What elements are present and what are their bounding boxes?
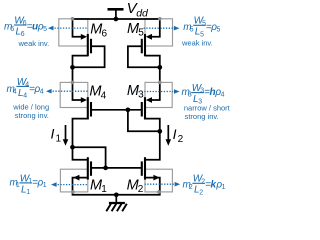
- wire cross-coupling gates M4,M3 to node Y: [128, 110, 159, 132]
- highlight box M3: [145, 82, 172, 107]
- svg-text:5: 5: [217, 26, 221, 33]
- transistor M2 source wire to ground rail: [116, 178, 160, 195]
- pointer line to label m3: [133, 91, 173, 93]
- transistor M5 channel bar: [144, 34, 146, 56]
- transistor M5 source arrow: [146, 34, 152, 40]
- transistor M3 channel bar: [144, 97, 146, 119]
- pin marker M1 box: [71, 190, 75, 194]
- svg-text:5: 5: [200, 31, 204, 38]
- svg-text:1: 1: [56, 133, 62, 144]
- svg-text:1: 1: [222, 184, 226, 191]
- svg-text:6: 6: [21, 31, 25, 38]
- svg-text:4: 4: [101, 90, 107, 101]
- pin marker M5 box: [158, 17, 162, 21]
- svg-text:4: 4: [13, 89, 17, 96]
- transistor M2 channel bar: [144, 157, 146, 179]
- transistor M6 channel bar: [87, 34, 89, 56]
- transistor M3 gate bar: [141, 102, 143, 117]
- pointer line to label m6: [48, 26, 54, 31]
- transistor M3 drain wire down through node Y to M2 drain: [145, 119, 160, 160]
- highlight box M6: [59, 19, 88, 46]
- transistor M1 source wire to ground rail: [73, 178, 117, 195]
- pin marker M2 box: [157, 190, 161, 194]
- transistor M6 source arrow: [81, 34, 87, 40]
- svg-text:4: 4: [40, 89, 44, 96]
- current arrow I2: [167, 125, 169, 140]
- transistor M6 drain wire down to M4 source: [73, 56, 88, 100]
- svg-text:dd: dd: [136, 8, 149, 20]
- pointer line to label m1: [51, 182, 57, 187]
- svg-text:5: 5: [138, 28, 144, 39]
- svg-text:strong inv.: strong inv.: [15, 111, 49, 120]
- transistor M6 gate wire loop: [73, 46, 104, 67]
- transistor M2 source arrow: [153, 175, 159, 181]
- transistor M1 channel bar: [87, 157, 89, 179]
- node Vdd junction: [114, 17, 119, 22]
- svg-text:I: I: [173, 126, 177, 142]
- pin marker M3 box: [158, 81, 162, 85]
- transistor M5 gate wire loop: [128, 46, 159, 67]
- transistor M4 drain wire down through node X to M1 drain: [73, 119, 88, 160]
- svg-text:5: 5: [190, 26, 194, 33]
- highlight box M5: [145, 19, 173, 46]
- svg-text:weak inv.: weak inv.: [18, 39, 50, 48]
- transistor M4 channel bar: [87, 97, 89, 119]
- pin marker M4 box: [71, 81, 75, 85]
- value label m1 W1/L1 = rho1: [10, 173, 47, 196]
- transistor M1 gate bar: [90, 161, 92, 175]
- svg-text:6: 6: [102, 28, 108, 39]
- transistor M5 drain wire down to M3 source: [145, 56, 160, 100]
- node Y junction (M3/M2 drains): [157, 129, 162, 134]
- svg-text:2: 2: [178, 134, 184, 145]
- pin marker M6 box: [71, 17, 75, 21]
- transistor M1 source arrow: [73, 175, 79, 181]
- highlight box M4: [60, 82, 88, 107]
- value label m3 W3/L3 = h*rho4: [182, 83, 225, 106]
- svg-text:weak inv.: weak inv.: [181, 39, 213, 48]
- pointer line to label m5: [144, 27, 174, 29]
- pointer line to label m2: [145, 183, 175, 185]
- svg-text:1: 1: [101, 184, 107, 195]
- value label m5 W5/L5 = rho5: [183, 16, 220, 39]
- node X junction (M4/M1 drains): [70, 145, 75, 150]
- wire Vdd rail with M6 and M5 source leads: [73, 19, 160, 37]
- svg-text:5: 5: [43, 26, 47, 33]
- node M6 drain / M4 source junction: [70, 65, 75, 70]
- svg-text:1: 1: [43, 182, 47, 189]
- highlight box M2: [145, 169, 172, 192]
- pointer line to label m4: [46, 89, 52, 94]
- transistor M6 gate bar: [90, 39, 92, 54]
- transistor M5 gate bar: [141, 39, 143, 54]
- svg-text:strong inv.: strong inv.: [185, 112, 219, 121]
- wire cross-coupling node X to gates M1,M2: [73, 147, 105, 168]
- value label m2 W2/L2 = k*rho1: [183, 174, 226, 197]
- power Vdd symbol: [115, 9, 117, 19]
- node ground junction: [114, 192, 119, 197]
- node gate line junction upper: [126, 107, 131, 112]
- transistor M2 gate bar: [141, 161, 143, 175]
- transistor M3 source arrow: [146, 97, 152, 103]
- svg-text:I: I: [51, 126, 55, 142]
- value label m4 W4/L4 = rho4: [7, 77, 44, 100]
- transistor M4 gate bar: [90, 102, 92, 117]
- svg-text:4: 4: [221, 92, 225, 99]
- svg-text:1: 1: [26, 189, 30, 196]
- node gate line junction lower: [103, 166, 108, 171]
- current arrow I1: [65, 125, 67, 140]
- wire M4-M3 common gate line: [92, 109, 141, 111]
- value label m6 W6/L6 = u*rho5: [4, 15, 47, 38]
- ground symbol: [115, 195, 117, 203]
- transistor M4 source arrow: [81, 97, 87, 103]
- svg-text:2: 2: [199, 189, 203, 196]
- svg-text:4: 4: [23, 92, 27, 99]
- node M5 drain / M3 source junction: [157, 65, 162, 70]
- svg-text:2: 2: [189, 184, 193, 191]
- svg-text:6: 6: [10, 26, 14, 33]
- wire M1-M2 common gate line: [92, 167, 141, 169]
- svg-text:2: 2: [138, 184, 144, 195]
- highlight box M1: [60, 169, 87, 192]
